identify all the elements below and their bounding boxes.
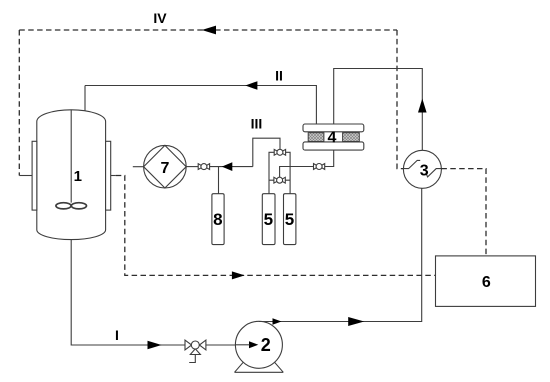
module M4 left membrane block [308, 133, 324, 142]
svg-text:6: 6 [482, 274, 491, 291]
wire into pump 2 [236, 344, 250, 346]
valve V2 three-way with drain near pump 2 [185, 340, 206, 362]
pump P7 inner diamond [144, 145, 187, 188]
arrow on dashed line pointing right [232, 271, 245, 279]
svg-text:I: I [115, 327, 119, 343]
wire dashed from vessel right nozzle down to box 6 [111, 175, 116, 177]
wire pump 7 suction stub [133, 166, 144, 168]
box 6 [436, 256, 536, 307]
cylinder 5b [284, 194, 296, 245]
valve V6 manifold lower [274, 177, 285, 183]
small arrow on discharge pointing right [273, 318, 282, 324]
impeller blades [56, 203, 71, 209]
svg-text:IV: IV [153, 10, 167, 26]
wire module outlet to manifold [280, 167, 314, 178]
pump P2 circle [235, 321, 282, 368]
svg-text:3: 3 [420, 162, 429, 179]
pump P7 circle [144, 145, 187, 188]
exchanger E3 coil symbol right [426, 169, 441, 177]
wire branch down to cylinder 8 [218, 167, 220, 194]
large arrow on discharge pointing right [348, 317, 364, 326]
svg-text:2: 2 [261, 335, 271, 355]
wire module 4 bottom outlet [325, 150, 334, 166]
valve V3 on module 4 outlet [314, 164, 325, 170]
vessel V1 left jacket plate [32, 141, 37, 210]
svg-text:II: II [275, 68, 283, 84]
svg-text:1: 1 [74, 168, 82, 185]
svg-text:8: 8 [213, 210, 222, 229]
wire stub into vessel left nozzle [19, 175, 32, 177]
arrow pointing up on exchanger riser [418, 99, 427, 113]
wire manifold top valve stubs and risers [269, 152, 290, 193]
cylinder 5a [262, 194, 275, 245]
wire line III from manifold to pump 7 [210, 138, 280, 166]
vessel V1 body [37, 110, 106, 240]
wire vessel bottom outlet line I [71, 240, 185, 345]
module M4 bottom plate [303, 142, 364, 150]
arrow inside pump 2 [249, 341, 258, 348]
wire from module 4 top to exchanger 3 top link [334, 69, 423, 151]
module M4 top plate [303, 124, 364, 132]
stirrer shaft [70, 110, 72, 203]
valve V4 on pump 7 line [198, 164, 209, 170]
wire dashed recycle line IV horizontal [19, 29, 397, 31]
wire dashed vertical left from IV down to vessel [18, 30, 20, 176]
svg-text:III: III [251, 116, 263, 132]
wire pump 7 discharge [186, 166, 198, 168]
arrow on line II pointing left [245, 81, 257, 90]
svg-text:4: 4 [328, 130, 337, 147]
module M4 right membrane block [343, 133, 360, 142]
wire line II horizontal from module 4 to vessel [85, 86, 316, 125]
arrow on line IV pointing left [202, 26, 216, 35]
wire manifold lower valve stubs [269, 179, 290, 181]
vessel V1 right jacket plate [106, 141, 111, 210]
svg-text:5: 5 [285, 210, 294, 229]
arrow on line III pointing left [222, 162, 233, 171]
svg-text:7: 7 [160, 160, 169, 177]
heat exchanger E3 circle [403, 150, 441, 188]
wire vessel top outlet pipe [84, 86, 86, 111]
wire pump 2 discharge to exchanger 3 [259, 188, 422, 321]
wire dashed from exchanger 3 right to box 6 top [441, 169, 486, 256]
arrow on line I pointing right [148, 341, 162, 349]
exchanger E3 coil symbol left [403, 160, 420, 168]
valve V5 manifold top [274, 149, 285, 155]
cylinder 8 [212, 194, 224, 245]
wire dashed vertical right from IV down to exchanger 3 [397, 30, 403, 169]
svg-text:5: 5 [264, 210, 273, 229]
wire valve to pump 2 [206, 344, 236, 346]
pump P2 stand [235, 362, 284, 372]
